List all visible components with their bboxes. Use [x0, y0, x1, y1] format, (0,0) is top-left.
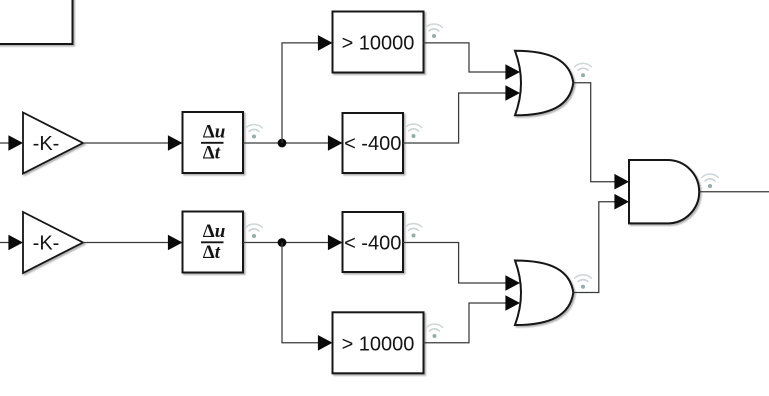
- wire: gain G2 to derivative D2: [83, 242, 171, 244]
- wire: junction into compare block C (< -400): [328, 235, 343, 251]
- wire: gain G1 to derivative D1: [83, 142, 171, 144]
- wire: input to gain G2: [0, 242, 12, 244]
- wire: AND U3 output to right edge: [700, 191, 769, 193]
- wire: compare B output to OR gate input 2: [403, 93, 507, 143]
- gain G1 (-K- triangle): [23, 113, 83, 174]
- signal logging icon (derivative D1 output): [246, 125, 263, 139]
- gain G2 (-K- triangle): [23, 212, 83, 273]
- svg-text:Δt: Δt: [203, 143, 221, 164]
- svg-text:Δu: Δu: [203, 121, 226, 142]
- svg-text:-K-: -K-: [33, 133, 60, 155]
- junction node (row 1): [278, 139, 287, 148]
- wire: junction up to "> 10000" block A: [282, 43, 321, 143]
- wire: input to gain G1: [0, 142, 12, 144]
- signal logging icon (compare D output): [426, 324, 443, 338]
- signal logging icon (OR U2 output): [575, 275, 592, 289]
- derivative D1 (du/dt block): [183, 112, 244, 173]
- svg-text:< -400: < -400: [344, 233, 401, 255]
- wire: junction into compare block B (< -400): [328, 135, 343, 151]
- wire: OR U1 output to AND gate input 1: [573, 83, 616, 182]
- wire: compare C output to OR gate U2 input 1: [403, 243, 507, 284]
- wire: compare D output to OR gate U2 input 2: [424, 303, 508, 343]
- svg-text:-K-: -K-: [33, 233, 60, 255]
- AND gate U3: [629, 160, 699, 223]
- OR gate U1: [515, 51, 573, 116]
- signal logging icon (compare A output): [426, 24, 443, 38]
- junction node (row 2): [278, 238, 287, 247]
- compare block A (> 10000): [333, 12, 424, 73]
- svg-text:> 10000: > 10000: [342, 33, 415, 55]
- wire: compare A output to OR gate input 1: [424, 43, 508, 72]
- svg-text:Δu: Δu: [203, 221, 226, 242]
- svg-text:< -400: < -400: [344, 133, 401, 155]
- wire: OR U2 output to AND gate input 2: [573, 202, 616, 293]
- compare block C (< -400): [343, 212, 404, 272]
- wire: derivative D1 output to compare blocks: [243, 142, 332, 144]
- wire: derivative D2 output to compare blocks: [243, 242, 332, 244]
- svg-text:Δt: Δt: [203, 242, 221, 263]
- compare block B (< -400): [343, 113, 404, 173]
- wire: junction down to "> 10000" block D: [282, 243, 321, 343]
- signal logging icon (OR U1 output): [575, 63, 592, 77]
- signal logging icon (AND U3 output): [702, 174, 719, 188]
- derivative D2 (du/dt block): [183, 212, 244, 273]
- svg-text:> 10000: > 10000: [342, 333, 415, 355]
- partial block (top-left, clipped by canvas edge): [0, 0, 73, 44]
- compare block D (> 10000): [333, 312, 424, 373]
- signal logging icon (derivative D2 output): [246, 224, 263, 238]
- OR gate U2: [515, 261, 573, 326]
- signal logging icon (compare B output): [405, 124, 422, 138]
- signal logging icon (compare C output): [405, 224, 422, 238]
